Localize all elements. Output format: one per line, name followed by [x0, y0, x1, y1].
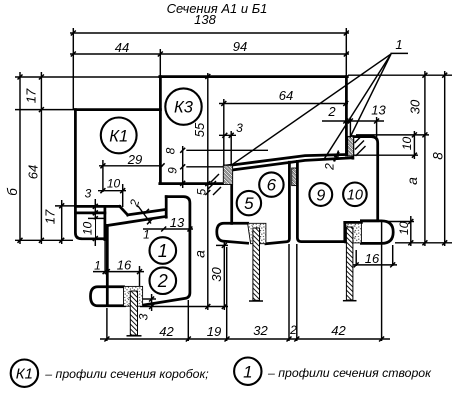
- extension y166.8: [186, 166, 224, 168]
- svg-text:а: а: [404, 177, 420, 185]
- extension x105: [104, 241, 106, 272]
- dim 30/a right vertical line: [422, 71, 427, 246]
- svg-text:13: 13: [371, 103, 386, 118]
- sash 5 weatherstrip: [249, 228, 263, 301]
- extension x289: [288, 244, 290, 341]
- svg-text:Сечения А1 и Б1: Сечения А1 и Б1: [167, 1, 268, 16]
- sash 10 bulb: [361, 221, 393, 244]
- extension x188.3: [187, 300, 189, 341]
- extension y240: [15, 239, 73, 241]
- svg-text:64: 64: [279, 88, 293, 103]
- svg-text:55: 55: [192, 122, 207, 137]
- sash 5-6 right edge: [266, 162, 290, 244]
- svg-text:1: 1: [158, 241, 168, 261]
- extension y134.9: [356, 134, 429, 136]
- extension y245.5: [216, 244, 228, 246]
- frame K3 top edge: [160, 75, 347, 78]
- extension y221.5: [388, 221, 414, 223]
- frame K1 surface: [75, 205, 119, 208]
- svg-text:1: 1: [94, 259, 101, 273]
- gasket between 6 and 9: [292, 168, 298, 186]
- frame K1 foot ledge: [75, 212, 105, 215]
- svg-text:10: 10: [107, 177, 121, 191]
- dim 16 right line: [352, 262, 397, 267]
- sash 1-2 top and right edge: [143, 197, 190, 306]
- dim 10 right1 line: [412, 131, 417, 159]
- frame step x224.6: [223, 166, 226, 184]
- circle 5: [237, 191, 261, 215]
- dim 3 small bottom line: [149, 294, 154, 311]
- extension right top: [345, 28, 347, 76]
- extension x122.7: [122, 184, 124, 207]
- svg-text:16: 16: [365, 251, 380, 266]
- svg-text:10: 10: [397, 221, 411, 235]
- svg-text:2: 2: [289, 323, 297, 337]
- svg-text:94: 94: [233, 39, 247, 54]
- sash 10 bottom right edge: [361, 219, 377, 222]
- frame K1 top edge: [75, 108, 160, 111]
- extension x356.2: [355, 250, 357, 266]
- sash tops sloped edge: [233, 158, 352, 170]
- dim 64 line: [219, 101, 348, 106]
- dim в vertical line: [442, 71, 447, 246]
- svg-text:64: 64: [26, 165, 41, 179]
- frame K1 flange edge: [104, 206, 107, 239]
- svg-text:3: 3: [236, 121, 243, 135]
- svg-text:44: 44: [115, 40, 129, 55]
- extension left top: [72, 28, 74, 110]
- legend circle 1: [234, 358, 261, 385]
- dim 3 top middle line: [219, 133, 236, 138]
- svg-text:29: 29: [127, 152, 142, 167]
- gasket at K3 right: [348, 136, 366, 156]
- svg-text:б: б: [5, 188, 20, 196]
- svg-text:42: 42: [159, 324, 174, 339]
- sash 2 foot bulb: [91, 287, 125, 306]
- dim 2 gap leader: [334, 151, 340, 162]
- dim line 17 lower: [59, 200, 64, 244]
- svg-text:3: 3: [85, 187, 92, 201]
- sash 1-2 wing slope: [108, 216, 166, 225]
- dim 2 lip leader: [138, 206, 152, 224]
- svg-text:32: 32: [253, 323, 268, 338]
- svg-text:30: 30: [209, 267, 224, 282]
- svg-text:5: 5: [244, 194, 254, 213]
- svg-text:2: 2: [327, 104, 336, 119]
- sash 9 notch gasket: [345, 222, 362, 243]
- dim 138 line: [70, 31, 349, 36]
- frame K1 left edge and foot bottom: [75, 110, 105, 239]
- svg-text:8: 8: [164, 147, 178, 154]
- svg-text:– профили сечения створок: – профили сечения створок: [267, 366, 432, 380]
- extension x102.9: [102, 160, 104, 192]
- dim 29 line: [99, 163, 165, 168]
- leader label 1: [391, 37, 409, 53]
- dim 1/16 line: [93, 269, 144, 274]
- svg-text:3: 3: [137, 313, 151, 320]
- svg-text:К1: К1: [109, 127, 128, 145]
- sash 5 foot gasket: [248, 223, 266, 243]
- svg-text:13: 13: [170, 215, 185, 230]
- frame junction bottom edge: [160, 182, 225, 185]
- dim 2/13 line top right: [322, 119, 384, 124]
- svg-text:17: 17: [43, 209, 58, 224]
- frame K1 rebate step: [120, 206, 128, 215]
- svg-text:2: 2: [157, 271, 168, 291]
- extension y218.4 foot: [88, 217, 104, 219]
- extension x106.9: [106, 308, 108, 341]
- svg-text:138: 138: [194, 12, 216, 27]
- extension for 64: [223, 99, 225, 166]
- extension y75.2 right: [348, 74, 452, 76]
- svg-text:42: 42: [331, 323, 346, 338]
- svg-text:17: 17: [24, 88, 39, 103]
- svg-text:9: 9: [316, 187, 325, 204]
- leader lines fan: [232, 54, 391, 165]
- sash 9-10 left edge: [297, 161, 344, 241]
- frame bottom sloped edge: [225, 155, 348, 167]
- extension x381.6: [381, 222, 383, 341]
- extension y150.3: [186, 149, 268, 151]
- extension x350.4: [349, 117, 351, 137]
- svg-text:К1: К1: [16, 366, 33, 383]
- svg-text:а: а: [192, 250, 208, 258]
- svg-text:16: 16: [117, 258, 132, 273]
- circle 2: [150, 267, 177, 294]
- svg-text:10: 10: [81, 222, 95, 236]
- dim line 17/64 left: [39, 72, 44, 244]
- extension y77 left: [15, 76, 160, 78]
- extension y206: [55, 205, 75, 207]
- label 10 foot white box: [82, 220, 95, 238]
- svg-text:10: 10: [400, 137, 414, 151]
- svg-text:8: 8: [431, 152, 446, 160]
- extension x296.8: [296, 244, 298, 341]
- dim 55/5/a vertical line: [205, 73, 210, 310]
- extension y242.8: [395, 242, 452, 244]
- extension x376.6: [376, 117, 378, 138]
- svg-text:6: 6: [267, 176, 277, 195]
- svg-text:1: 1: [143, 228, 150, 242]
- legend text left: [44, 367, 208, 381]
- circle 10: [343, 183, 367, 207]
- extension y299: [143, 298, 156, 300]
- svg-text:19: 19: [207, 324, 221, 339]
- frame K3 right edge: [345, 77, 348, 155]
- gasket at frame left step: [208, 165, 233, 195]
- extension y109.5 left: [15, 109, 75, 111]
- sash 1-2 wing left edge: [106, 225, 109, 305]
- legend text right: [267, 366, 432, 380]
- dim 10 right2 line: [408, 216, 413, 246]
- circle 6: [259, 172, 283, 196]
- extension y306.5: [140, 306, 228, 308]
- sash 5 foot bulb: [217, 223, 248, 243]
- dim 13 line sash1: [143, 227, 193, 232]
- svg-text:10: 10: [347, 188, 363, 204]
- extension mid top: [159, 49, 161, 76]
- circle K1: [101, 117, 137, 153]
- svg-text:30: 30: [408, 99, 423, 114]
- legend circle K1: [11, 360, 38, 387]
- circle 1: [150, 237, 177, 264]
- dim 8/9 vertical line: [180, 146, 185, 188]
- bottom chain line: [100, 337, 390, 342]
- svg-text:5: 5: [195, 188, 209, 195]
- sash 10 top and right edge: [353, 137, 378, 221]
- sash 5-6 left edge: [230, 170, 233, 224]
- sash 10 lip left edge: [352, 137, 355, 159]
- svg-text:1: 1: [243, 362, 252, 381]
- dim 30 mid vertical line: [222, 241, 227, 310]
- circle 9: [309, 183, 332, 206]
- sash 1-2 left edge: [165, 197, 168, 218]
- sash 2 foot gasket: [124, 286, 143, 306]
- svg-text:– профили сечения коробок;: – профили сечения коробок;: [44, 367, 208, 381]
- svg-text:1: 1: [395, 37, 402, 52]
- frame K1 lip sloped: [128, 209, 166, 215]
- dim line б: [18, 72, 23, 244]
- sash 9 weatherstrip: [343, 227, 357, 301]
- dim 44/94 line: [70, 52, 349, 57]
- dim 10 top line: [98, 188, 126, 193]
- sash 2 weatherstrip: [127, 291, 142, 336]
- extension x231.2: [230, 131, 232, 166]
- extension x392.7: [392, 245, 394, 266]
- extension x139.5: [139, 266, 141, 287]
- svg-text:К3: К3: [174, 98, 194, 116]
- frame K1/K3 shared edge: [159, 77, 162, 184]
- extension x226.7: [226, 247, 228, 341]
- circle K3: [165, 88, 201, 124]
- dim 3/10 vertical line: [93, 199, 98, 246]
- svg-text:2: 2: [323, 163, 337, 171]
- extension y155.2: [350, 154, 418, 156]
- svg-text:9: 9: [166, 167, 180, 174]
